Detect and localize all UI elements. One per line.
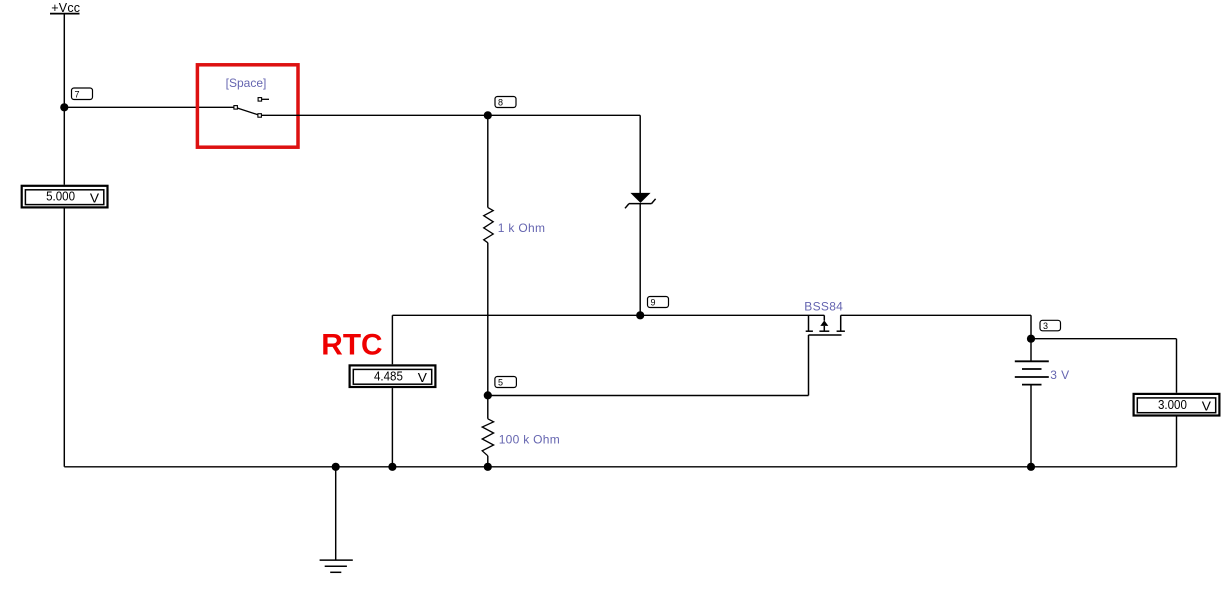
wire bottom ground rail xyxy=(64,466,1176,468)
wire node 5 down to resistor R2 xyxy=(487,395,489,418)
ground xyxy=(320,560,353,572)
wire voltmeter U2 bottom to ground rail xyxy=(391,388,393,467)
wire node 5 to MOSFET Q1 gate xyxy=(488,395,809,397)
node 3 label xyxy=(1040,320,1061,331)
node 3 junction dot xyxy=(1027,335,1035,343)
node 9 label xyxy=(648,297,669,308)
svg-text:V: V xyxy=(418,371,428,385)
svg-text:8: 8 xyxy=(498,98,503,108)
junction dot resistor R2 branch xyxy=(484,463,492,471)
wire MOSFET Q1 to node 3 corner xyxy=(841,315,1031,338)
wire voltmeter U3 bottom to ground rail xyxy=(1176,416,1178,467)
node 8 label xyxy=(495,97,516,108)
MOSFET Q1 BSS84 xyxy=(806,315,845,395)
wire resistor R2 bottom to ground rail xyxy=(487,456,489,467)
power symbol +Vcc xyxy=(50,1,80,15)
voltmeter U1 5.000 V xyxy=(22,186,108,208)
svg-text:3.000: 3.000 xyxy=(1158,398,1187,412)
wire zener diode D1 to node 9 xyxy=(639,204,641,316)
junction dot voltmeter U2 branch xyxy=(388,463,396,471)
svg-text:4.485: 4.485 xyxy=(374,369,403,383)
svg-text:5: 5 xyxy=(498,378,503,388)
svg-text:7: 7 xyxy=(75,89,80,99)
wire resistor R1 bottom to node 5 xyxy=(487,243,489,396)
junction dot battery V2 branch xyxy=(1027,463,1035,471)
node 8 junction dot xyxy=(484,111,492,119)
svg-text:9: 9 xyxy=(651,298,656,308)
wire battery V2 bottom to ground rail xyxy=(1030,385,1032,467)
svg-text:100 k Ohm: 100 k Ohm xyxy=(499,432,560,446)
svg-text:BSS84: BSS84 xyxy=(804,300,843,314)
junction dot ground stub xyxy=(332,463,340,471)
wire node 8 down to resistor R1 xyxy=(487,115,489,207)
svg-text:3 V: 3 V xyxy=(1050,368,1069,382)
wire node 7 to switch J1 xyxy=(64,106,234,108)
wire Vcc to voltmeter U1 top xyxy=(63,14,65,185)
wire corner down to zener diode D1 xyxy=(639,115,641,193)
svg-text:5.000: 5.000 xyxy=(46,190,75,204)
wire node 3 down to battery V2 xyxy=(1030,339,1032,362)
node 5 label xyxy=(495,377,517,388)
svg-text:3: 3 xyxy=(1043,321,1048,331)
node 9 junction dot xyxy=(636,311,644,319)
resistor R1 1 k Ohm xyxy=(484,208,494,243)
svg-text:[Space]: [Space] xyxy=(226,76,267,90)
node 7 label xyxy=(72,88,93,100)
svg-text:V: V xyxy=(90,191,100,205)
svg-text:1 k Ohm: 1 k Ohm xyxy=(498,221,545,235)
zener diode D1 xyxy=(625,193,656,208)
svg-text:RTC: RTC xyxy=(321,328,382,361)
switch J1 highlight red box xyxy=(197,65,298,147)
node 7 junction dot xyxy=(60,103,68,111)
node 5 junction dot xyxy=(484,391,492,399)
battery V2 3 V xyxy=(1015,361,1049,384)
switch J1 xyxy=(234,98,269,118)
voltmeter U3 3.000 V xyxy=(1134,394,1220,416)
wire node 9 corner down to voltmeter U2 xyxy=(391,315,393,364)
svg-text:V: V xyxy=(1202,399,1212,413)
resistor R2 100 k Ohm xyxy=(482,419,493,456)
wire node 9 horizontal run to MOSFET Q1 xyxy=(392,314,824,316)
wire voltmeter U1 bottom to ground rail xyxy=(63,208,65,467)
voltmeter U2 4.485 V xyxy=(350,365,436,387)
wire switch J1 to diode branch corner xyxy=(261,114,640,116)
wire ground rail to ground symbol xyxy=(335,467,337,560)
wire node 3 to voltmeter U3 xyxy=(1031,339,1177,393)
